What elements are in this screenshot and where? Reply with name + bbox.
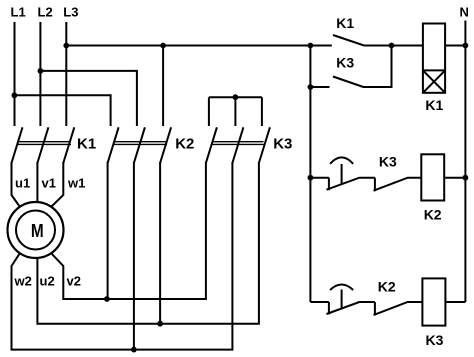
svg-text:L2: L2 — [38, 5, 53, 20]
svg-text:L1: L1 — [11, 5, 26, 20]
svg-text:K1: K1 — [77, 136, 96, 153]
svg-text:N: N — [460, 5, 469, 20]
svg-text:K3: K3 — [273, 136, 292, 153]
svg-text:w1: w1 — [67, 176, 85, 191]
svg-text:u2: u2 — [40, 274, 55, 289]
svg-text:K3: K3 — [336, 54, 354, 70]
svg-text:v1: v1 — [42, 176, 56, 191]
svg-text:v2: v2 — [67, 274, 81, 289]
svg-text:K2: K2 — [378, 279, 396, 295]
svg-text:u1: u1 — [15, 176, 30, 191]
svg-text:K1: K1 — [425, 97, 443, 113]
svg-text:K2: K2 — [175, 136, 194, 153]
svg-text:K2: K2 — [424, 207, 442, 223]
svg-text:K1: K1 — [336, 15, 354, 31]
svg-text:w2: w2 — [14, 274, 32, 289]
svg-text:K3: K3 — [379, 154, 397, 170]
svg-text:K3: K3 — [426, 332, 444, 348]
svg-text:M: M — [31, 220, 44, 241]
svg-text:L3: L3 — [63, 5, 78, 20]
